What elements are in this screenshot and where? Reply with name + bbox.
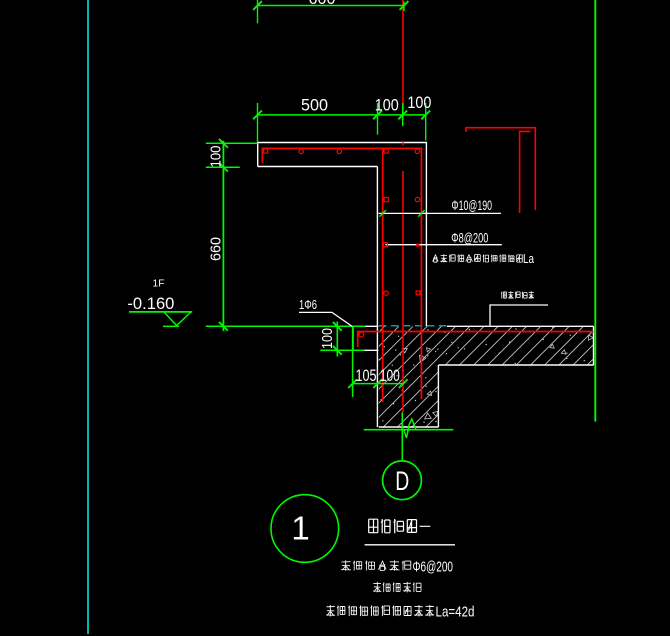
dimension 600 (top, cut off): [253, 0, 408, 23]
note line 2: [373, 582, 421, 593]
top slab rebar with end hooks: [262, 148, 421, 399]
svg-text:100: 100: [208, 146, 225, 168]
detail bubble 1 circle: [271, 495, 339, 563]
leader phi10: [379, 210, 502, 216]
dimension 105/100 (bottom): [348, 379, 407, 388]
svg-text:500: 500: [301, 96, 328, 115]
top slab soffit: [258, 166, 378, 168]
svg-text:660: 660: [208, 237, 225, 261]
floor slab soffit: [438, 364, 593, 366]
svg-text:1Φ6: 1Φ6: [299, 298, 317, 312]
text distribution note: [433, 254, 523, 262]
break line bottom (green): [364, 419, 454, 438]
svg-text:105: 105: [356, 366, 377, 385]
floor slab cut end: [593, 326, 595, 365]
svg-text:Φ8@200: Φ8@200: [451, 230, 488, 246]
window reference line (cyan): [87, 0, 89, 634]
rebar section marks (top slab): [264, 149, 420, 154]
window line (cyan dashed): [379, 325, 447, 327]
grid line D (dash at slab): [402, 142, 404, 145]
note line 1: [341, 560, 411, 571]
sill height dim 100: [320, 322, 364, 357]
leader 1phi6: [299, 312, 352, 326]
svg-text:1F: 1F: [153, 278, 165, 290]
floor slab top edge: [447, 325, 594, 327]
extension line at floor level: [206, 325, 366, 327]
left dimension line 100+660: [206, 139, 258, 331]
title text: [369, 519, 431, 533]
svg-text:La: La: [523, 252, 534, 266]
leader phi8: [385, 244, 501, 246]
window sill stub outline: [353, 326, 378, 350]
title underline: [365, 544, 455, 546]
level symbol: [129, 312, 192, 326]
sill extension line: [352, 326, 354, 397]
leader phi8 mid mark: [416, 244, 419, 247]
grid line D (lower segment): [402, 171, 404, 413]
negative rebar inner bar: [520, 131, 531, 213]
lower wall right edge: [437, 365, 439, 427]
svg-text:1: 1: [291, 510, 309, 547]
grid line D (green tail): [401, 413, 403, 462]
floor slab rebar with hook: [358, 332, 594, 348]
lower wall cut bottom: [379, 426, 439, 428]
svg-text:Φ10@190: Φ10@190: [452, 197, 493, 213]
leader slab negative bar: [490, 305, 548, 326]
svg-text:La=42d: La=42d: [436, 603, 475, 620]
negative rebar outer bar: [466, 128, 535, 210]
svg-text:100: 100: [375, 96, 399, 115]
break line right (green): [594, 0, 596, 422]
grid bubble D circle: [383, 461, 422, 500]
1phi6 bar section: [359, 332, 364, 337]
rebar section marks (wall upper): [384, 197, 420, 201]
svg-text:100: 100: [380, 366, 400, 385]
text slab negative bar note: [501, 291, 534, 299]
bay window wall outer edge: [376, 167, 378, 428]
svg-text:600: 600: [309, 0, 336, 8]
bay window top slab outline: [258, 143, 427, 327]
note line 3: [326, 605, 434, 617]
svg-text:-0.160: -0.160: [127, 294, 174, 313]
rebar section marks (wall lower): [384, 291, 420, 296]
grid line D (red, upper segment): [402, 0, 404, 120]
svg-text:100: 100: [407, 93, 431, 112]
wall rebar (inner): [382, 148, 384, 402]
svg-text:Φ6@200: Φ6@200: [413, 559, 454, 575]
svg-text:D: D: [395, 466, 409, 496]
dimension row 500/100/100: [253, 103, 430, 142]
svg-text:100: 100: [319, 328, 336, 349]
leader phi8 start mark: [383, 243, 387, 247]
